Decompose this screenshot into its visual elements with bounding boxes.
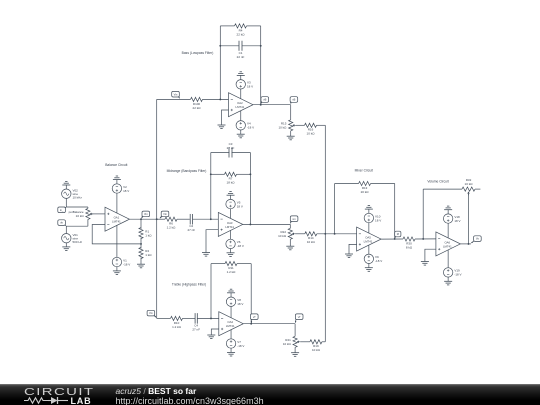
svg-text:Treble (Highpass Filter): Treble (Highpass Filter) [172,282,206,286]
junction volume feedback / input [422,238,424,240]
node vB at OA2 output [261,97,269,104]
wire R30 to volume - input [415,238,436,240]
resistor R1 1 kOhm [139,228,143,239]
wire OA5 + input to ground [349,244,357,249]
svg-text:Vin: Vin [163,212,167,216]
node Vin bass input [172,91,180,98]
wire R32 wiper down to output [468,194,470,244]
wire wiper to op-amp + input [92,213,106,215]
wire R21 wiper to R19 [300,341,310,343]
section label Bass (Lowpass Filter) [182,51,214,55]
wire OA6 V- to V19 [447,250,449,268]
resistor R100 22 kOhm label [193,102,202,110]
node Vo output [471,236,481,243]
capacitor C1 22 nF [239,41,242,51]
resistor R10 1.2 kOhm [171,316,183,320]
source V7 -18V [226,339,235,348]
footer credit line 2 [116,396,264,405]
node vB at R15 [290,97,298,104]
wire R1 to R2 [140,238,142,249]
ground below R15 [287,132,295,140]
wire OA6 output [460,243,471,245]
node M at mixer output [395,231,401,238]
svg-text:LMT41: LMT41 [225,225,234,229]
ground OA5 + input [345,250,353,258]
wire OA3 + input to ground [206,230,218,248]
wire R2 to ground [140,258,142,261]
wire OA4 output [243,323,295,325]
potentiometer R21 10 kOhm [293,336,300,348]
source V1 -18V label [123,258,130,266]
resistor R11 1.2 kOhm label [227,266,237,274]
source V19 -18V [443,268,452,277]
potentiometer R15 10 kOhm label [278,121,287,129]
svg-text:-18 V: -18 V [237,244,244,248]
source V02 sine 10 kHz label [73,188,83,199]
wire R4 rail [220,25,234,27]
resistor R30 8 kOhm label [406,241,413,249]
ground above V10 [365,206,373,214]
resistor R4 22 kOhm label [237,28,246,36]
wire OA2 V- to V4 [240,111,242,121]
source V1 -18V [112,257,121,266]
op-amp OA3 LMT41 [218,212,243,236]
svg-text:vB: vB [292,98,295,102]
potentiometer R32 10 kOhm [462,187,480,195]
source V19 -18V label [454,269,461,277]
wire C2 to OA3 - input [193,218,219,220]
capacitor C2 27 nF label [187,224,195,232]
node vb [58,220,66,226]
source V9 -18V [364,254,373,263]
svg-text:18 V: 18 V [123,189,129,193]
svg-text:1 kΩ: 1 kΩ [145,233,152,237]
source V02 sine 10 kHz [62,189,71,198]
svg-text:22 nF: 22 nF [237,55,245,59]
capacitor C4 27 nF [195,313,197,324]
logo diode [51,397,58,404]
CircuitLab logo CIRCUIT [24,386,94,398]
resistor R14 10 kOhm label [307,236,316,244]
potentiometer R21 10 kOhm label [283,338,292,346]
ground below R2 [137,260,145,268]
svg-text:10 kΩ: 10 kΩ [307,240,316,244]
ground above V8 [227,289,235,297]
ground above V3 [237,72,245,80]
wire OA2 + input to ground [222,110,229,121]
wire V2 to OA1 V+ pin [116,193,118,213]
capacitor C1 22 nF label [237,51,245,59]
source V2 +18V [112,184,121,193]
svg-text:Vin: Vin [144,212,148,216]
source V2 +18V label [123,185,129,193]
svg-text:vT: vT [253,315,256,319]
junction C1 left [219,45,221,47]
node in_ [58,207,66,213]
node vT at treble output [251,314,259,323]
resistor R7 18 kOhm [225,172,237,176]
source V7 -18V label [237,340,244,348]
wire bass input rail [157,98,191,100]
svg-text:1.2 kΩ: 1.2 kΩ [167,226,177,230]
resistor R14 10 kOhm [305,232,317,236]
wire mid feedback right vertical [249,153,251,225]
wire OA1 output [130,218,157,220]
resistor R6 1.2 kOhm [165,217,177,221]
svg-text:Volume Circuit: Volume Circuit [427,180,448,184]
wire C4 to OA4 - input [197,317,219,319]
svg-text:LMT41: LMT41 [112,220,121,224]
junction OA5 output [394,238,396,240]
wire R4 rail right [247,25,261,27]
resistor R19 10 kOhm [310,340,322,344]
wire V5 to OA3 V+ [230,209,232,219]
capacitor C4 27 nF label [192,323,200,331]
ground below V6 [227,249,235,257]
resistor R10 1.2 kOhm label [172,321,182,329]
wire treble feedback left vertical [210,264,212,319]
source V10 +18V label [375,214,381,222]
svg-text:20 kΩ: 20 kΩ [361,190,370,194]
wire C1 rail left [220,45,239,47]
junction distribution / balance output [156,218,158,220]
svg-text:-18 V: -18 V [247,126,254,130]
svg-text:18 V: 18 V [247,85,253,89]
wire OA1 V- pin to V1 [116,225,118,257]
wire mid output down to R22 [289,224,291,228]
section label Balance Circuit [105,163,127,167]
footer credit line 1 [116,386,197,396]
op-amp OA2 LMT41 [229,93,254,117]
source V9 -18V label [375,255,382,263]
wire OA5 output [381,238,403,240]
resistor R7 18 kOhm label [227,177,236,185]
svg-text:10 kΩ: 10 kΩ [76,214,85,218]
wire mixer feedback left vertical [334,184,336,234]
resistor R2 1 kOhm label [145,249,152,257]
source V5 +18V label [237,200,243,208]
wire V8 to OA4 V+ [230,306,232,317]
wire treble feedback right vertical [250,264,252,324]
wire OA4 + input to ground [211,329,219,331]
svg-text:10 kHz: 10 kHz [73,195,83,199]
R32 label [465,178,474,186]
svg-text:18 V: 18 V [375,218,381,222]
ground below R22 [286,242,294,250]
wire volume feedback left vertical [422,189,424,239]
logo resistor squiggle [24,398,48,403]
wire R7 rail left [211,173,225,175]
wire mid feedback left vertical [210,153,212,220]
wire summing bus vertical [324,125,326,341]
wire R14 to summing bus [317,233,357,235]
ground above V18 [444,206,452,214]
wire C1 rail right [242,45,261,47]
wire V3 to OA2 V+ [240,89,242,99]
section label Volume Circuit [427,180,448,184]
svg-text:LMT41: LMT41 [226,324,235,328]
source V3 +18V [236,80,245,89]
svg-text:10 kΩ: 10 kΩ [307,132,316,136]
resistor R13 20 kOhm [359,181,371,185]
op-amp OA1 LMT41 [105,207,130,231]
svg-text:vT: vT [298,315,301,319]
ground below V1 [113,267,121,275]
junction OA1 output / R1 [140,218,142,220]
ground above V5 [227,192,235,200]
resistor R4 22 kOhm [235,24,247,28]
resistor R11 1.2 kOhm [225,262,237,266]
svg-text:10 kΩ: 10 kΩ [283,342,292,346]
wire OA1 feedback - input to divider [92,225,141,244]
potentiometer R22 10 kOhm [288,228,295,242]
capacitor C3 27 nF [229,148,232,158]
svg-text:22 kΩ: 22 kΩ [237,32,246,36]
source V10 +18V [364,213,373,222]
junction OA2 output [260,104,262,106]
source V01 sine 500 Hz label [73,233,83,244]
section label Midrange (Bandpass Filter) [167,169,207,173]
svg-text:10 kΩ: 10 kΩ [465,182,474,186]
wire balance output to R6 [157,218,165,220]
wire R13 rail left [335,183,359,185]
ground OA6 + input [421,257,429,265]
wire treble input rail [157,317,171,319]
svg-text:1.2 kΩ: 1.2 kΩ [172,325,182,329]
wire OA3 output [243,223,290,225]
svg-text:Vin: Vin [149,311,153,315]
source V18 +18V label [454,215,460,223]
junction OA3 output [249,223,251,225]
wire V18 to OA6 V+ [447,223,449,238]
potentiometer R22 10 kOhm label [278,230,287,238]
section label Treble (Highpass Filter) [172,282,206,286]
svg-text:Mixer Circuit: Mixer Circuit [355,169,373,173]
wire R16 to summing bus [317,124,326,126]
svg-text:M: M [397,232,399,236]
svg-text:27 nF: 27 nF [227,146,235,150]
wire OA3 V- to V6 [230,230,232,239]
resistor R16 10 kOhm label [307,128,316,136]
ground below V01 [62,243,70,251]
svg-text:22 kΩ: 22 kΩ [193,106,202,110]
svg-text:Bass (Lowpass Filter): Bass (Lowpass Filter) [182,51,214,55]
wire R1 leads [140,219,142,229]
junction treble feedback / input [210,317,212,319]
capacitor C2 27 nF [190,214,192,225]
wire R11 rail right [237,263,251,265]
source V8 +18V [226,297,235,306]
resistor R16 10 kOhm [305,123,317,127]
svg-text:LMT41: LMT41 [364,240,373,244]
junction mid feedback / input [210,218,212,220]
wire bass output down to R15 [290,105,292,120]
svg-text:Midrange (Bandpass Filter): Midrange (Bandpass Filter) [167,169,207,173]
resistor R6 1.2 kOhm label [167,222,177,230]
ground OA3 + input [202,248,210,256]
wire input distribution vertical [156,99,158,318]
op-amp OA4 LMT41 [219,312,244,336]
source V4 -18V label [247,122,254,130]
ground below V7 [227,348,235,356]
wire bass feedback left vertical [219,26,221,100]
svg-text:10 kΩ: 10 kΩ [278,234,287,238]
svg-text:-18 V: -18 V [375,259,382,263]
junction C1 right [260,45,262,47]
source V01 sine 500 Hz [62,234,71,243]
op-amp OA6 LMT41 [436,232,461,256]
svg-text:27 nF: 27 nF [192,327,200,331]
ground below V9 [365,264,373,272]
resistor R30 8 kOhm [403,237,415,241]
wire mixer feedback right vertical [394,184,396,239]
node Vin treble input [147,310,156,317]
svg-text:Balance Circuit: Balance Circuit [105,163,127,167]
wire R22 wiper to R14 [296,233,305,235]
resistor R2 1 kOhm [139,248,143,259]
resistor R13 20 kOhm label [361,186,370,194]
junction R7 left [210,173,212,175]
section label Mixer Circuit [355,169,373,173]
junction OA6 output / wiper [468,243,470,245]
svg-text:vm: vm [292,218,295,221]
svg-text:-18 V: -18 V [123,262,130,266]
wire R10 to C4 [183,317,196,319]
wire R11 rail left [211,263,225,265]
source V5 +18V [226,199,235,208]
svg-text:1 kΩ: 1 kΩ [145,253,152,257]
junction mixer feedback / input [334,233,336,235]
svg-text:18 V: 18 V [454,219,460,223]
wire R19 to summing bus [322,341,325,343]
ground OA4 + input [207,331,215,339]
svg-text:Vin: Vin [174,92,178,96]
op-amp OA5 LMT41 [357,227,382,251]
wire OA4 V- to V7 [230,330,232,339]
wire V10 to OA5 V+ [368,223,370,233]
source V18 +18V [443,214,452,223]
svg-text:LMT41: LMT41 [236,105,245,109]
svg-text:LMT41: LMT41 [443,244,452,248]
svg-text:vB: vB [263,98,266,102]
source V6 -18V [226,239,235,248]
ground below V19 [444,277,452,285]
ground OA2 + input [218,121,226,129]
svg-text:10 kΩ: 10 kΩ [312,348,321,352]
junction R1/R2 feedback [140,243,142,245]
ground below R21 [291,349,299,357]
node Vin at OA1 output [142,211,150,218]
source V6 -18V label [237,240,244,248]
wire OA2 output [253,104,291,106]
potentiometer R15 10 kOhm [289,120,296,132]
wire C3 rail left [211,152,230,154]
junction R7 right [249,173,251,175]
wire volume top rail [423,188,462,190]
resistor R100 22 kOhm [191,97,203,101]
svg-text:18 kΩ: 18 kΩ [227,181,236,185]
node vm at mid output [290,216,298,224]
ground above V2 [113,176,121,184]
wire C3 rail right [232,152,251,154]
wire R15 wiper to R16 [296,124,305,126]
node Vin mid input [160,211,169,218]
footer bar [0,384,540,405]
source V4 -18V [236,121,245,130]
ground below V4 [237,130,245,138]
resistor R1 1 kOhm label [145,229,152,237]
wire R100 to OA2 - input [203,98,229,100]
wire treble output down to R21 [294,324,296,337]
ground above V02 [62,181,70,189]
potentiometer potBalance 10 kOhm label [69,210,85,218]
svg-text:-18 V: -18 V [454,273,461,277]
wire R6 to C2 [177,218,190,220]
node vT at R21 [295,314,303,323]
junction OA4 output [250,323,252,325]
wire V02 to potBalance top [66,198,88,207]
wire OA5 V- to V9 [368,245,370,254]
junction summing bus / mixer input [324,233,326,235]
svg-text:10 kΩ: 10 kΩ [278,125,287,129]
junction bass feedback / input [219,98,221,100]
svg-text:in_: in_ [60,208,64,212]
source V8 +18V label [237,298,243,306]
wire OA6 + input to ground [425,249,436,257]
source V3 +18V label [247,81,253,89]
wire potBalance bottom to V01 [66,226,88,233]
svg-text:18 V: 18 V [237,302,243,306]
svg-text:1.2 kΩ: 1.2 kΩ [227,270,237,274]
svg-text:-18 V: -18 V [237,344,244,348]
wire bass feedback right vertical [260,26,262,105]
resistor R19 10 kOhm label [312,344,321,352]
svg-text:500 Hz: 500 Hz [73,240,83,244]
CircuitLab logo schematic glyph [0,384,120,405]
wire R13 rail right [371,183,395,185]
svg-text:8 kΩ: 8 kΩ [406,245,413,249]
potentiometer potBalance 10 kOhm [86,207,93,226]
svg-text:18 V: 18 V [237,204,243,208]
wire R7 rail right [237,173,251,175]
capacitor C3 27 nF label [227,142,235,150]
svg-text:27 nF: 27 nF [187,228,195,232]
